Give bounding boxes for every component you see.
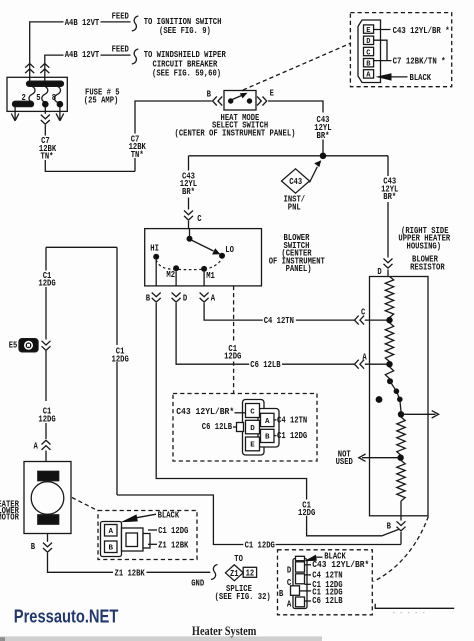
fuse block bus bar: [27, 81, 64, 86]
in-line connector chevron C7: [41, 115, 50, 125]
left jumper leg down: [45, 247, 47, 339]
svg-text:TN*: TN*: [131, 150, 144, 160]
wire into pivot: [189, 229, 191, 236]
svg-text:HI: HI: [150, 244, 159, 254]
heat mode connector body: [358, 20, 381, 83]
resistor terminal B: [400, 516, 402, 521]
switch terminal A wire: [203, 272, 205, 286]
svg-text:A: A: [265, 418, 270, 426]
junction dot output with right arrow: [398, 411, 404, 417]
svg-text:C43 12YL/BR*: C43 12YL/BR*: [312, 560, 369, 570]
svg-text:A: A: [362, 353, 367, 363]
fuse element pin 2: [29, 86, 35, 102]
fuse block F5 box: [7, 77, 67, 111]
svg-text:E: E: [270, 88, 275, 98]
junction dot A: [386, 361, 392, 367]
unconnected dot: [376, 396, 383, 403]
ground curl symbol: [211, 565, 218, 580]
wire C43 right branch down to resistor: [387, 156, 389, 258]
svg-text:12DG: 12DG: [112, 354, 129, 364]
heat mode select switch box: [224, 91, 256, 111]
svg-text:B: B: [108, 545, 113, 553]
svg-text:C: C: [250, 408, 255, 416]
splice fig box 12: [243, 567, 256, 577]
switch tap dots: [387, 378, 393, 384]
dashed contact arc: [156, 259, 222, 270]
connector chevron E heat mode switch: [257, 97, 267, 106]
svg-text:Z1 12BK: Z1 12BK: [115, 568, 146, 578]
svg-text:Pressauto.NET: Pressauto.NET: [14, 605, 119, 626]
svg-text:D: D: [377, 267, 382, 277]
wire C43 left branch down: [188, 156, 190, 210]
bottom gray band: [0, 636, 322, 641]
switch connector body: [243, 400, 265, 456]
svg-text:C: C: [366, 49, 370, 57]
switch contact dots: [228, 98, 233, 103]
dashed box resistor connector: [278, 550, 373, 615]
svg-text:C1 12DG: C1 12DG: [158, 526, 188, 536]
label Z1 12BK motor: [148, 543, 157, 545]
svg-text:C43 12YL/BR*: C43 12YL/BR*: [176, 407, 234, 417]
svg-text:12DG: 12DG: [224, 352, 241, 362]
svg-text:C6 12LB: C6 12LB: [202, 422, 233, 432]
svg-text:C1 12DG: C1 12DG: [245, 540, 275, 550]
resistor element segment 4: [397, 417, 405, 455]
svg-text:C: C: [197, 214, 202, 224]
svg-text:A: A: [211, 294, 216, 304]
dashed box blower switch connector: [173, 394, 317, 462]
junction dot C43: [320, 153, 327, 160]
resistor connector pin row 3: [291, 586, 300, 596]
svg-text:E5: E5: [9, 340, 18, 350]
heater blower motor box: [24, 462, 71, 534]
svg-text:B: B: [207, 89, 212, 99]
resistor connector pin row 2: [296, 574, 305, 584]
dashed box heat mode connector: [350, 13, 451, 87]
jumper wire C1 12DG top: [46, 247, 117, 495]
svg-text:(25 AMP): (25 AMP): [84, 95, 119, 105]
svg-text:LO: LO: [225, 245, 234, 255]
svg-text:BLACK: BLACK: [410, 73, 432, 83]
label C43 12YL/BR* pin C: [235, 412, 246, 414]
svg-text:TO: TO: [234, 554, 243, 564]
svg-text:5: 5: [36, 93, 40, 103]
svg-text:C1 12DG: C1 12DG: [277, 431, 307, 441]
wire C1 12DG switch B to resistor B: [156, 303, 398, 536]
in-line connector chevron feed 2: [40, 64, 49, 74]
label C6 12LB pin D: [233, 426, 237, 428]
label C1 12DG pin B: [274, 435, 277, 437]
terminal dot pin 5: [42, 101, 49, 108]
splice symbol C43 diamond: [282, 169, 310, 193]
svg-text:C43: C43: [289, 177, 302, 187]
junction dot C: [386, 317, 392, 323]
svg-text:TN*: TN*: [41, 152, 54, 162]
feed curl symbol 2: [132, 49, 139, 64]
motor connector pin A: [105, 525, 118, 537]
svg-text:PANEL): PANEL): [286, 264, 312, 274]
svg-text:M1: M1: [206, 271, 215, 281]
switch arm arrow: [232, 95, 243, 100]
svg-text:Heater System: Heater System: [192, 624, 257, 638]
svg-text:BR*: BR*: [383, 192, 396, 202]
switch terminal B wire: [155, 260, 157, 286]
resistor element segment 2: [385, 323, 393, 362]
connector chevron at E5: [42, 341, 51, 351]
svg-text:A4B 12VT: A4B 12VT: [65, 50, 100, 60]
label C43 12YL/BR * pin E: [374, 29, 391, 31]
svg-text:D: D: [287, 566, 292, 576]
blower switch arm arrow: [191, 240, 213, 251]
svg-text:MOTOR: MOTOR: [0, 513, 19, 523]
in-line connector chevron feed 1: [25, 64, 34, 74]
label BLACK pin A: [376, 73, 392, 80]
svg-text:D: D: [366, 38, 370, 46]
svg-text:C4 12TN: C4 12TN: [277, 416, 307, 426]
switch terminal D wire: [175, 271, 177, 286]
contact dot M1: [201, 266, 207, 272]
svg-text:C4 12TN: C4 12TN: [264, 316, 294, 326]
svg-text:B: B: [279, 589, 284, 599]
dashed box motor connector: [98, 511, 197, 560]
svg-text:HOUSING): HOUSING): [407, 241, 442, 251]
connector pin A: [364, 70, 374, 78]
svg-text:C: C: [287, 578, 292, 588]
C43 bus wire: [189, 155, 389, 157]
wire C1 12DG resistor B to motor branch: [117, 495, 401, 545]
contact dot HI: [153, 254, 159, 260]
label C1 12DG resistor row3: [305, 583, 312, 585]
svg-text:8: 8: [52, 93, 56, 103]
svg-text:E: E: [250, 442, 255, 450]
wire A4B feed to ignition switch: [30, 22, 131, 81]
switch connector pin C: [246, 404, 260, 418]
svg-text:A4B 12VT: A4B 12VT: [65, 18, 100, 28]
fuse element pin 5: [42, 86, 48, 102]
switch connector pin A: [261, 413, 275, 426]
dashed leader resistor to connector: [374, 517, 429, 582]
wire C6 12LB switch D to resistor: [176, 303, 354, 364]
svg-text:C43 12YL/BR *: C43 12YL/BR *: [393, 26, 450, 36]
wire C7 run to switch B: [45, 158, 135, 171]
svg-text:C6 12LB: C6 12LB: [312, 596, 343, 606]
svg-text:USED: USED: [336, 457, 354, 467]
label BLACK with arrow: [121, 514, 138, 522]
svg-text:M2: M2: [166, 270, 175, 280]
svg-text:A: A: [34, 442, 39, 452]
terminal dot pin 8: [57, 101, 64, 108]
motor connector body: [101, 522, 122, 557]
resistor element segment 3: [385, 367, 393, 379]
connector chevron A resistor: [355, 360, 365, 369]
svg-text:BLACK: BLACK: [158, 511, 180, 521]
connector chevron C resistor: [355, 316, 365, 325]
blower switch box: [145, 229, 262, 286]
label C7 12BK/TN * pins D B: [374, 40, 392, 60]
switch connector pin E: [246, 437, 260, 451]
NOT USED arrow: [359, 454, 401, 461]
splice symbol Z1 diamond: [225, 565, 243, 581]
wire C7 up to heat mode switch: [135, 101, 212, 134]
svg-text:B: B: [387, 522, 392, 532]
label C4 12TN pin A: [274, 419, 277, 421]
wire C4 12TN switch A to resistor: [204, 303, 354, 320]
dashed leader to connector view: [243, 44, 350, 91]
switch connector pin D: [246, 420, 260, 434]
wire E to junction: [268, 101, 323, 153]
svg-text:12DG: 12DG: [38, 414, 55, 424]
motor terminal B: [47, 534, 49, 542]
motor terminal A: [45, 423, 47, 439]
blower switch pivot dot: [187, 236, 193, 242]
label C1 12DG motor: [148, 529, 157, 531]
svg-text:12: 12: [246, 569, 255, 579]
svg-text:B: B: [146, 294, 151, 304]
connector pin E: [364, 25, 374, 33]
switch connector pin B: [261, 429, 275, 442]
resistor connector body: [293, 559, 307, 609]
wire pin5 down: [44, 108, 46, 114]
svg-text:B: B: [31, 542, 36, 552]
contact dot LO: [219, 253, 225, 259]
svg-text:BR*: BR*: [182, 187, 195, 197]
label BLACK resistor connector: [304, 555, 317, 562]
fuse element pin 8: [55, 86, 61, 102]
motor connector pin B: [105, 541, 118, 553]
svg-text:(SEE FIG. 9): (SEE FIG. 9): [159, 26, 211, 36]
svg-text:PNL: PNL: [288, 202, 301, 212]
label C6 12LB resistor: [305, 600, 312, 602]
resistor connector pin row 1: [296, 562, 305, 572]
blower resistor box: [370, 277, 429, 516]
arrow from splice to junction: [310, 167, 318, 183]
svg-text:GND: GND: [191, 578, 204, 588]
svg-text:B: B: [265, 434, 270, 442]
svg-text:FEED: FEED: [112, 11, 130, 21]
svg-text:(SEE FIG. 32): (SEE FIG. 32): [215, 592, 271, 602]
svg-text:A: A: [287, 600, 292, 610]
svg-text:E: E: [366, 27, 370, 35]
connector chevron D blower resistor feed: [384, 259, 393, 269]
svg-text:C6 12LB: C6 12LB: [250, 360, 281, 370]
label C1 12DG resistor row4: [300, 590, 312, 592]
dashed leader blower switch to connector: [233, 286, 235, 394]
svg-text:Z1 12BK: Z1 12BK: [158, 540, 189, 550]
motor circle: [31, 482, 64, 515]
contact dot M2: [173, 265, 179, 271]
resistor element segment 1: [385, 277, 393, 318]
wire A4B feed to wiper breaker: [45, 55, 131, 81]
svg-text:BR*: BR*: [317, 131, 330, 141]
label C4 12TN resistor: [305, 574, 312, 576]
svg-text:D: D: [250, 425, 255, 433]
motor brush top: [38, 471, 59, 480]
svg-text:12DG: 12DG: [38, 279, 55, 289]
svg-text:(SEE FIG. 59,60): (SEE FIG. 59,60): [152, 69, 221, 79]
svg-text:Z1: Z1: [230, 569, 239, 579]
svg-text:D: D: [183, 294, 188, 304]
connector pin D: [364, 36, 374, 44]
connector chevron B heat mode switch: [213, 97, 223, 106]
svg-text:C7 12BK/TN *: C7 12BK/TN *: [393, 57, 446, 67]
wire pin8 down arrow: [56, 108, 64, 121]
label C43 12YL/BR * resistor: [305, 564, 312, 566]
svg-text:(CENTER OF INSTRUMENT PANEL): (CENTER OF INSTRUMENT PANEL): [175, 129, 296, 139]
svg-text:FEED: FEED: [112, 45, 130, 55]
motor brush bottom: [38, 515, 59, 524]
bottom right border line: [375, 604, 454, 609]
svg-text:C: C: [361, 308, 366, 318]
svg-text:RESISTOR: RESISTOR: [410, 262, 445, 272]
wire pin2 down arrow: [11, 107, 19, 121]
svg-text:12DG: 12DG: [298, 508, 315, 518]
resistor element segment 5: [397, 460, 405, 501]
junction dot not used: [397, 455, 403, 461]
connector pin C: [364, 47, 374, 55]
fuse block lower bar: [13, 101, 34, 106]
svg-text:A: A: [108, 528, 113, 536]
connector chevron C blower switch feed: [184, 211, 193, 221]
connector pin B: [364, 59, 374, 67]
resistor connector pin row 4: [296, 597, 305, 607]
feed curl symbol 1: [132, 16, 139, 31]
dashed leader motor to connector: [72, 498, 98, 511]
